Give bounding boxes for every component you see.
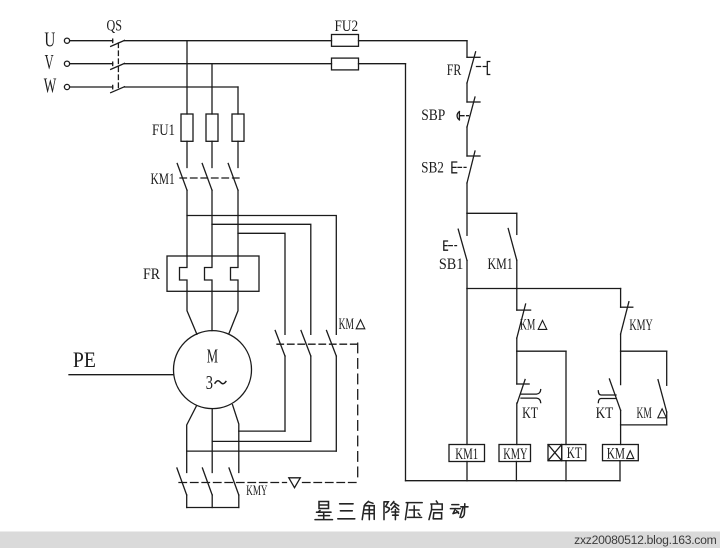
wire KMY aux bottom bbox=[620, 334, 622, 351]
switch QS pole W tick bbox=[112, 85, 114, 88]
wire phase B drop bbox=[211, 64, 213, 114]
coil KT box bbox=[562, 445, 586, 461]
contact KT delayed bar bbox=[517, 383, 529, 385]
wire KM-delta 3 down bbox=[335, 356, 337, 451]
title char ya bbox=[405, 503, 422, 520]
svg-text:PE: PE bbox=[73, 347, 96, 372]
svg-text:KMY: KMY bbox=[503, 446, 528, 463]
wire KM1-A to FR bbox=[186, 190, 188, 256]
KM-delta to KMY linkage vertical dashed bbox=[357, 343, 359, 482]
wire V after QS bbox=[125, 63, 332, 65]
svg-text:KM1: KM1 bbox=[151, 171, 175, 188]
svg-text:3: 3 bbox=[206, 372, 213, 394]
title char xing bbox=[315, 502, 333, 520]
return rail bbox=[405, 64, 407, 481]
FR heater A bbox=[180, 256, 188, 291]
fuse FU2 upper bbox=[332, 35, 359, 47]
svg-text:KM1: KM1 bbox=[488, 256, 513, 273]
wire SB1 top bbox=[466, 213, 468, 235]
wire KM-delta 1 down bbox=[284, 356, 286, 431]
wire to KMY coil bbox=[516, 403, 518, 444]
contactor KMY main contact A blade bbox=[177, 468, 187, 495]
QS linkage dashed bbox=[117, 43, 119, 91]
wire KM1 coil to bus bbox=[466, 462, 468, 481]
star point bus bbox=[187, 507, 239, 509]
wire phase A drop bbox=[186, 41, 188, 114]
terminal W bbox=[64, 84, 69, 89]
label KM-delta NO aux bbox=[637, 405, 667, 422]
wire U after QS bbox=[125, 40, 332, 42]
contact KM1 aux blade bbox=[508, 229, 517, 261]
wire FU1 A to KM1 bbox=[186, 141, 188, 167]
svg-text:KMY: KMY bbox=[629, 317, 653, 334]
switch QS pole V blade bbox=[111, 63, 125, 69]
contact KT delayed blade bbox=[517, 380, 525, 404]
svg-text:KT: KT bbox=[567, 445, 582, 462]
coil KT X-square bbox=[548, 445, 562, 461]
coil KM1 box bbox=[449, 445, 485, 462]
FR control contact bar bbox=[467, 56, 480, 58]
wire KMdelta aux branch bar bbox=[621, 350, 667, 352]
contactor KM-delta main contact 3 blade bbox=[327, 331, 337, 357]
wire FR-A to motor bbox=[187, 291, 197, 334]
wire KM1-B to FR bbox=[211, 190, 213, 256]
svg-text:SB1: SB1 bbox=[439, 256, 464, 273]
svg-text:FR: FR bbox=[447, 62, 462, 79]
svg-text:FR: FR bbox=[143, 266, 160, 283]
SB1 head E bbox=[444, 241, 448, 250]
wire branch A to delta drop 3 bbox=[187, 216, 336, 335]
svg-text:KM: KM bbox=[637, 405, 652, 422]
PE wire bbox=[69, 374, 174, 376]
fuse FU2 lower bbox=[332, 58, 359, 70]
terminal U bbox=[64, 38, 69, 43]
title char jiao bbox=[362, 501, 374, 519]
label coil KM-delta bbox=[607, 446, 634, 463]
svg-text:SB2: SB2 bbox=[421, 160, 444, 177]
wire to KM1 coil bbox=[466, 289, 468, 445]
SBP head bbox=[457, 112, 459, 121]
wire branch bar upper bbox=[467, 212, 517, 214]
wire branch B to delta drop 2 bbox=[212, 224, 311, 334]
wire FR to SBP bbox=[466, 83, 468, 102]
svg-text:SBP: SBP bbox=[421, 107, 445, 124]
svg-text:M: M bbox=[207, 345, 218, 367]
svg-text:KT: KT bbox=[596, 405, 614, 422]
title char san bbox=[338, 504, 355, 519]
switch QS pole W blade bbox=[111, 87, 125, 93]
wire W to QS bbox=[70, 86, 113, 88]
wire KM1-C to FR bbox=[237, 190, 239, 256]
contactor KM-delta main contact 2 blade bbox=[301, 331, 311, 357]
svg-text:KMY: KMY bbox=[246, 483, 267, 499]
svg-text:KT: KT bbox=[522, 405, 538, 422]
wire SB1 bottom bbox=[466, 261, 468, 289]
wire KT coil to bus bbox=[565, 461, 567, 481]
wire KMY A down bbox=[186, 495, 188, 508]
KM-delta linkage dashed bbox=[277, 343, 358, 345]
contact KT delayed-open blade bbox=[609, 379, 620, 410]
wire SBP to SB2 bbox=[466, 127, 468, 156]
contact KM-delta NO blade bbox=[658, 380, 667, 412]
wire KT branch bar bbox=[517, 350, 566, 352]
wire W after QS bbox=[125, 86, 239, 88]
contactor KM1 main contact C blade bbox=[228, 164, 238, 191]
wire KMdelta NC top bbox=[516, 289, 518, 311]
coil KMY box bbox=[499, 445, 531, 462]
wire KT-A top bbox=[516, 351, 518, 384]
terminal V bbox=[64, 61, 69, 66]
KT delay symbol lower bbox=[521, 398, 541, 403]
svg-text:V: V bbox=[45, 50, 54, 74]
wire motor to lead C2 bbox=[233, 405, 239, 473]
contactor KMY main contact B blade bbox=[202, 468, 212, 495]
wire KMdelta coil to bus bbox=[619, 461, 621, 481]
wire motor to lead A2 bbox=[187, 406, 197, 473]
wire FU1 B to KM1 bbox=[211, 141, 213, 167]
bottom bus bbox=[406, 480, 621, 482]
wire KM-delta 2 down bbox=[310, 356, 312, 441]
button SBP blade bbox=[467, 97, 475, 127]
switch QS pole U blade bbox=[111, 40, 125, 46]
button SB2 contact bar bbox=[467, 155, 480, 157]
FR contact actuator hook bbox=[487, 62, 489, 75]
wire KMY aux top bbox=[620, 289, 622, 308]
SB1 head dashes bbox=[449, 245, 457, 247]
thermal relay FR box bbox=[167, 256, 259, 291]
label KM-delta main bbox=[339, 316, 365, 333]
wire FR-B to motor bbox=[211, 291, 213, 330]
FR heater B bbox=[205, 256, 213, 291]
KMY linkage dashed bbox=[179, 482, 287, 484]
SBP head dashes bbox=[461, 115, 469, 117]
wire C2 to delta drop 1 bbox=[239, 430, 285, 432]
contactor KMY main contact C blade bbox=[229, 468, 239, 495]
wire KMY B down bbox=[211, 495, 213, 508]
wire U to QS bbox=[70, 40, 113, 42]
svg-text:zxz20080512.blog.163.com: zxz20080512.blog.163.com bbox=[574, 533, 716, 547]
wire B2 to delta drop 2 bbox=[212, 440, 311, 442]
footer gray bar bbox=[0, 532, 720, 548]
motor tilde bbox=[215, 381, 227, 384]
svg-text:U: U bbox=[44, 27, 55, 51]
wire SB2 to branch bbox=[466, 183, 468, 213]
wire KMdelta NO top bbox=[666, 351, 668, 385]
fuse FU1 phase A bbox=[181, 114, 193, 141]
switch QS pole U tick bbox=[112, 39, 114, 42]
wire control rail top bbox=[466, 41, 468, 58]
wire FR-C to motor bbox=[229, 291, 238, 333]
fuse FU1 phase C bbox=[232, 114, 244, 141]
SB2 head E bbox=[452, 162, 457, 173]
label KM-delta NC aux bbox=[520, 317, 547, 334]
button SBP contact bar bbox=[467, 101, 480, 103]
FR contact actuator dashes bbox=[477, 66, 487, 68]
title char qi bbox=[429, 501, 442, 520]
wire rejoin bar bbox=[621, 424, 667, 426]
FR control contact blade bbox=[467, 52, 476, 83]
svg-text:KM: KM bbox=[607, 446, 625, 463]
SB2 head dashes bbox=[458, 166, 466, 168]
wire KMdelta NC bottom bbox=[516, 338, 518, 351]
wire FU1 C to KM1 bbox=[237, 141, 239, 167]
coil KM-delta box bbox=[603, 445, 639, 461]
svg-text:QS: QS bbox=[107, 17, 123, 34]
button SB2 blade bbox=[467, 151, 475, 183]
title char dong bbox=[450, 504, 468, 518]
svg-text:KM: KM bbox=[339, 316, 354, 333]
fuse FU1 phase B bbox=[206, 114, 218, 141]
svg-text:KM: KM bbox=[520, 317, 535, 334]
wire KMY coil to bus bbox=[515, 462, 517, 481]
KT-B delay symbol lower bbox=[598, 399, 616, 403]
wire phase C drop bbox=[237, 87, 239, 114]
KT-B delay symbol upper bbox=[598, 391, 616, 395]
wire V to QS bbox=[70, 63, 113, 65]
wire to KT coil bbox=[565, 351, 567, 444]
wire U fuse to control rail bbox=[359, 40, 468, 42]
wire branch bar middle bbox=[467, 288, 621, 290]
wire KMdelta NO bottom bbox=[666, 412, 668, 425]
wire motor to lead B2 bbox=[211, 409, 213, 473]
title char jiang bbox=[384, 502, 399, 520]
contact KM-delta NC bar bbox=[517, 309, 531, 311]
wire KM1 aux bottom bbox=[516, 260, 518, 288]
contactor KM-delta main contact 1 blade bbox=[275, 331, 285, 357]
contact KM-delta NC blade bbox=[517, 304, 526, 338]
svg-text:FU1: FU1 bbox=[152, 122, 175, 139]
svg-text:KM1: KM1 bbox=[455, 446, 478, 463]
contactor KM1 main contact A blade bbox=[177, 164, 187, 191]
wire KMY C down bbox=[238, 495, 240, 508]
KT delay symbol upper bbox=[521, 390, 541, 395]
switch QS pole V tick bbox=[112, 62, 114, 65]
svg-text:FU2: FU2 bbox=[335, 18, 359, 35]
button SB1 blade bbox=[458, 229, 467, 260]
wire branch C to delta drop 1 bbox=[238, 233, 285, 334]
wire KT-B bottom bbox=[620, 410, 622, 444]
KM1 linkage dashed bbox=[180, 177, 243, 179]
linkage triangle symbol bbox=[289, 478, 301, 488]
wire KT-B top bbox=[620, 351, 622, 384]
motor M circle bbox=[174, 331, 252, 409]
contact KMY aux blade bbox=[621, 302, 629, 334]
FR heater C bbox=[231, 256, 239, 291]
wire V fuse to return rail bbox=[359, 63, 406, 65]
contact KMY aux bar bbox=[621, 306, 633, 308]
svg-text:W: W bbox=[44, 74, 57, 98]
wire KM1 aux top bbox=[516, 213, 518, 234]
KMY linkage dashed right bbox=[303, 482, 358, 484]
wire A2 to delta drop 3 bbox=[187, 450, 337, 452]
contactor KM1 main contact B blade bbox=[202, 164, 212, 191]
